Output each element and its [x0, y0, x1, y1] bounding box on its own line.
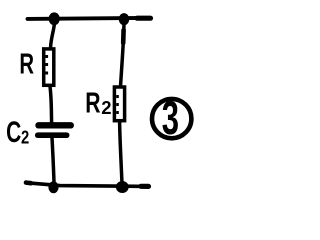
svg-text:2: 2	[101, 97, 111, 118]
svg-text:C: C	[6, 117, 21, 149]
svg-text:3: 3	[162, 92, 179, 144]
svg-text:2: 2	[21, 127, 29, 148]
svg-text:R: R	[85, 87, 100, 119]
svg-text:R: R	[19, 48, 34, 80]
